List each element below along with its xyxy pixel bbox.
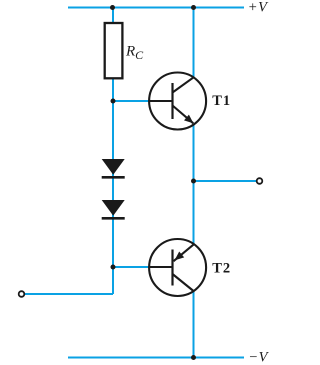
node: +V junction at T1 collector: [191, 5, 196, 10]
wire right branch collector T1: [193, 8, 195, 80]
wire output: [194, 180, 258, 182]
wire input horizontal: [24, 293, 113, 295]
node: +V junction at resistor top: [110, 5, 115, 10]
diode D2: [102, 200, 125, 218]
wire T1 emitter to T2 emitter: [193, 123, 195, 246]
svg-text:T2: T2: [212, 260, 231, 276]
resistor RC: [105, 23, 144, 78]
wire T2 base: [113, 266, 150, 268]
wire left branch vertical: [112, 8, 114, 295]
transistor T1: [149, 73, 231, 130]
diode D1: [102, 159, 125, 177]
node: T1 base / resistor bottom: [111, 99, 116, 104]
output terminal: [257, 178, 263, 184]
input terminal: [19, 291, 25, 297]
node: output junction: [191, 179, 196, 184]
wire +V rail: [68, 7, 244, 9]
node: T2 base / diode bottom: [111, 265, 116, 270]
svg-text:+V: +V: [248, 0, 269, 16]
svg-text:RC: RC: [125, 44, 144, 63]
transistor T2: [149, 239, 231, 296]
node: -V junction at T2 collector: [191, 355, 196, 360]
wire T2 collector to -V rail: [193, 290, 195, 358]
svg-text:T1: T1: [212, 93, 231, 109]
wire -V rail: [68, 357, 244, 359]
svg-text:−V: −V: [248, 349, 269, 365]
wire T1 base: [113, 100, 150, 102]
